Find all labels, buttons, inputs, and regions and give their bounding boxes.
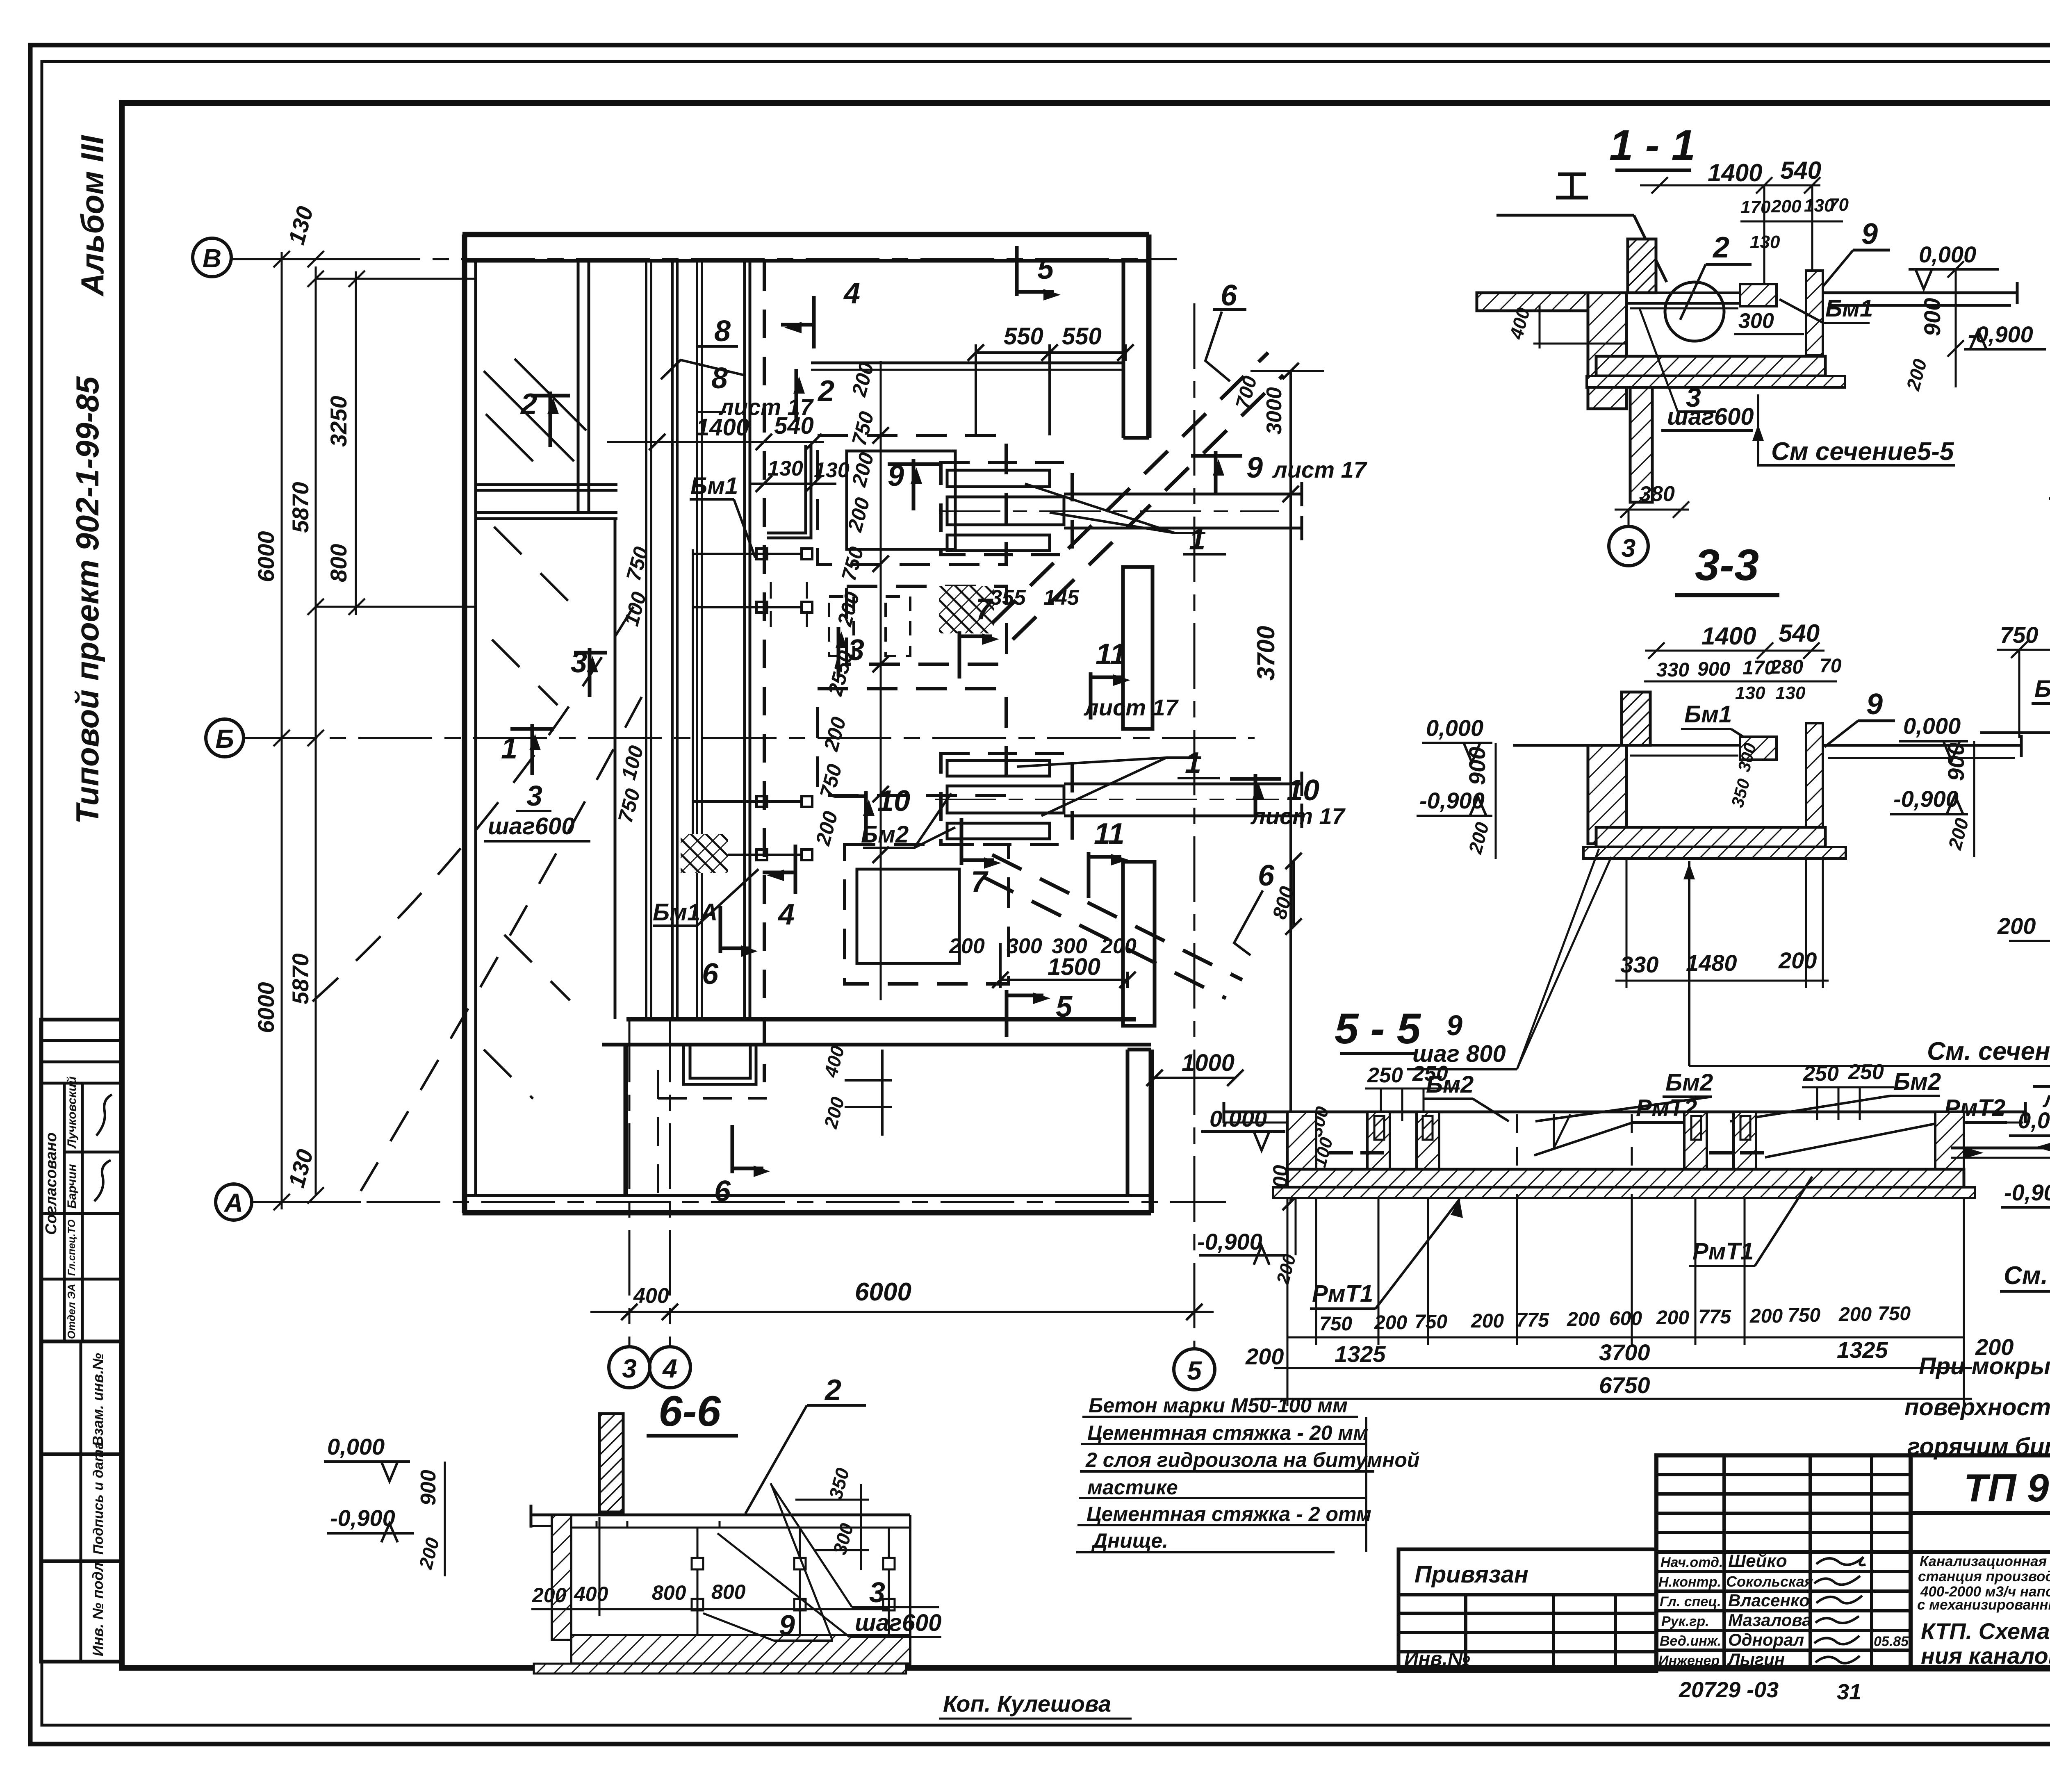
svg-text:11: 11	[1094, 817, 1125, 850]
small revision grid	[1656, 1455, 1911, 1552]
bottom slab	[1596, 827, 1825, 847]
svg-text:лист 17: лист 17	[1272, 457, 1368, 483]
svg-text:Гл. спец.: Гл. спец.	[1660, 1594, 1721, 1610]
svg-text:7: 7	[971, 865, 989, 898]
leader 1 upper	[1025, 484, 1205, 533]
anchor bolt squares	[756, 549, 767, 559]
grid axis B line	[232, 258, 1177, 260]
channel corridor wall pair B	[671, 261, 674, 1019]
flag 5 bottom	[1007, 990, 1050, 1037]
svg-text:6750: 6750	[1599, 1372, 1650, 1398]
svg-text:2: 2	[817, 375, 834, 408]
channel right wall	[1806, 723, 1823, 827]
см сечение 5-5	[1758, 424, 1955, 465]
svg-text:Привязан: Привязан	[1414, 1561, 1528, 1588]
svg-text:Инв.№: Инв.№	[1404, 1648, 1470, 1670]
right vertical dim 3700/3000/700	[1289, 371, 1292, 1202]
svg-text:шаг600: шаг600	[488, 813, 575, 840]
svg-text:3250: 3250	[326, 396, 351, 447]
dim 1000	[1155, 1077, 1235, 1079]
svg-text:Власенко: Власенко	[1728, 1591, 1810, 1610]
top slab lines with left pipe end	[531, 1514, 910, 1516]
callout leaders	[295, 310, 1263, 1191]
svg-text:мастике: мастике	[1087, 1476, 1178, 1499]
note paragraph при мокрых грунтах	[1904, 1353, 2050, 1460]
flag 6 sump	[720, 906, 758, 957]
svg-text:800: 800	[652, 1581, 686, 1604]
svg-text:550: 550	[1062, 323, 1102, 350]
sump niche	[683, 1045, 756, 1084]
right outlet pipes	[1964, 1111, 2025, 1113]
svg-text:200: 200	[1749, 1305, 1783, 1327]
svg-text:130: 130	[768, 457, 803, 480]
grid circle 4	[649, 1347, 690, 1388]
svg-text:5: 5	[1187, 1356, 1202, 1385]
flag 10 center	[834, 791, 875, 840]
svg-text:31: 31	[1837, 1680, 1861, 1704]
svg-text:130: 130	[1735, 683, 1765, 703]
crosshatch grate patch	[939, 586, 994, 633]
pump dashed outline lower	[941, 754, 1072, 845]
svg-text:1325: 1325	[1837, 1337, 1888, 1363]
svg-text:3: 3	[526, 780, 542, 812]
grid letters	[203, 244, 1202, 1385]
svg-text:1325: 1325	[1335, 1341, 1386, 1367]
leader 6 bottom-right	[1234, 890, 1263, 955]
leader 1 lower	[1017, 758, 1201, 767]
svg-text:Гл.спец.ТО: Гл.спец.ТО	[66, 1219, 77, 1276]
grid circle 3	[609, 1347, 650, 1388]
flag 4 top	[781, 296, 814, 348]
right wall lower segment	[1149, 1050, 1154, 1213]
right wall pilaster mid	[1123, 567, 1153, 729]
svg-text:Рук.гр.: Рук.гр.	[1661, 1614, 1709, 1629]
svg-text:130: 130	[1775, 683, 1806, 703]
svg-text:800: 800	[326, 544, 351, 582]
stamp column table bottom-left (in margin)	[41, 1020, 122, 1662]
svg-text:3700: 3700	[1599, 1339, 1650, 1365]
wall pier below	[1630, 387, 1652, 502]
svg-text:См сечение5-5: См сечение5-5	[1771, 437, 1954, 466]
bottom dim chains	[1255, 1194, 1972, 1406]
svg-text:6: 6	[714, 1175, 731, 1208]
svg-text:900: 900	[1919, 298, 1945, 336]
svg-text:900: 900	[417, 1470, 440, 1505]
dimension ticks on left chains	[273, 251, 365, 1210]
pump dashed outline upper	[941, 462, 1072, 555]
svg-text:1400: 1400	[1701, 622, 1756, 650]
svg-text:200: 200	[949, 934, 985, 958]
right edge	[909, 1515, 911, 1664]
lower room dashed arcs	[295, 607, 633, 1017]
svg-text:шаг600: шаг600	[1667, 403, 1754, 430]
svg-text:200: 200	[1245, 1343, 1284, 1369]
svg-text:См. сечение 5-5: См. сечение 5-5	[1927, 1037, 2050, 1066]
svg-text:См. сечение 5-5: См. сечение 5-5	[2004, 1261, 2050, 1290]
flag 2 corridor up-arrow	[779, 369, 814, 422]
svg-text:550: 550	[1004, 323, 1043, 350]
svg-text:КТП. Схема расположе-: КТП. Схема расположе-	[1921, 1618, 2050, 1644]
rail mark I	[1496, 174, 1667, 282]
svg-text:4: 4	[843, 277, 860, 310]
upper-left room right wall	[577, 261, 580, 512]
svg-text:280: 280	[1770, 656, 1803, 678]
svg-text:3700: 3700	[1252, 626, 1280, 681]
channel bottom slab	[1596, 356, 1825, 376]
channel 540 right wall upper	[767, 445, 806, 533]
bottom slab	[571, 1635, 910, 1664]
walls	[1287, 1112, 1316, 1186]
svg-text:1: 1	[1185, 747, 1201, 779]
svg-text:750: 750	[1414, 1311, 1447, 1333]
svg-text:200: 200	[1771, 196, 1802, 216]
svg-text:1 - 1: 1 - 1	[1609, 121, 1695, 169]
svg-text:4: 4	[662, 1354, 677, 1383]
svg-text:1000: 1000	[1182, 1050, 1235, 1076]
svg-text:3: 3	[571, 646, 587, 679]
svg-text:Н.контр.: Н.контр.	[1658, 1574, 1721, 1590]
svg-text:3: 3	[869, 1576, 885, 1608]
svg-text:Бм2: Бм2	[1665, 1069, 1713, 1096]
dashed guide small	[771, 582, 807, 640]
svg-text:0.000: 0.000	[1209, 1106, 1267, 1132]
signatures squiggles	[1814, 1557, 1865, 1663]
svg-text:3: 3	[622, 1354, 637, 1383]
second mid wall	[476, 511, 617, 514]
lower pump unit bars	[947, 761, 1050, 776]
plan texts	[614, 323, 1298, 1308]
svg-text:6000: 6000	[855, 1278, 911, 1306]
upper pump unit bars	[947, 470, 1050, 487]
base plate wavy	[1273, 1187, 1975, 1198]
flag 7 lower	[961, 818, 1001, 869]
svg-text:380: 380	[1639, 482, 1675, 506]
svg-text:-0,900: -0,900	[1197, 1229, 1262, 1255]
svg-text:0,000: 0,000	[1426, 715, 1483, 741]
svg-text:Бм2: Бм2	[1893, 1068, 1941, 1095]
svg-text:5870: 5870	[287, 953, 313, 1004]
svg-text:В: В	[203, 244, 221, 273]
svg-text:6: 6	[1221, 279, 1237, 312]
svg-text:3-3: 3-3	[1695, 540, 1759, 590]
dim 800 right	[1292, 861, 1295, 927]
wall below floor	[1588, 293, 1626, 409]
grid axis А line	[252, 1201, 1226, 1203]
svg-text:70: 70	[1820, 655, 1842, 677]
channel rails	[1626, 744, 1763, 747]
left pipes	[1951, 1147, 2050, 1150]
svg-text:70: 70	[1829, 195, 1849, 215]
svg-text:Типовой проект 902-1-99-85: Типовой проект 902-1-99-85	[69, 376, 105, 824]
svg-text:Инженер: Инженер	[1658, 1653, 1720, 1669]
flag 9 mid	[888, 459, 939, 510]
svg-text:ТП 902-1-99-85 - КЖ: ТП 902-1-99-85 - КЖ	[1964, 1466, 2050, 1510]
svg-text:200: 200	[1656, 1307, 1689, 1329]
right wall upper segment	[1146, 235, 1152, 438]
svg-text:1400: 1400	[1708, 159, 1762, 187]
svg-text:600: 600	[1609, 1308, 1642, 1330]
svg-text:540: 540	[1780, 157, 1821, 184]
grid axis Б line	[244, 737, 1255, 739]
lower pump axis	[935, 799, 1279, 800]
machinery inner solid rect upper	[847, 451, 955, 549]
svg-text:лист 17: лист 17	[718, 394, 814, 420]
upper room diagonal marks	[484, 371, 574, 461]
top dim 550 550	[976, 351, 1125, 354]
svg-text:ния каналов (начало): ния каналов (начало)	[1921, 1643, 2050, 1669]
grid circle B	[193, 238, 231, 277]
svg-text:5870: 5870	[287, 482, 313, 533]
svg-text:2 слоя гидроизола на битумной: 2 слоя гидроизола на битумной	[1085, 1448, 1419, 1471]
svg-text:300: 300	[1007, 934, 1042, 958]
svg-text:Сокольская: Сокольская	[1726, 1573, 1813, 1590]
svg-text:горячим битумом за 2 раза.: горячим битумом за 2 раза.	[1907, 1433, 2050, 1460]
svg-text:Подпись и дата: Подпись и дата	[91, 1441, 106, 1555]
svg-text:5: 5	[1056, 990, 1073, 1023]
svg-text:250: 250	[1412, 1062, 1448, 1086]
svg-text:Вед.инж.: Вед.инж.	[1660, 1633, 1721, 1649]
svg-text:200: 200	[1100, 934, 1137, 958]
sump chamber outline	[624, 1045, 628, 1195]
svg-text:2: 2	[824, 1374, 841, 1407]
svg-text:10: 10	[877, 785, 910, 817]
outer of name rows block	[1656, 1552, 1911, 1669]
stamp rotated captions	[43, 1076, 112, 1656]
grid axis 4 vertical	[669, 1017, 671, 1347]
svg-text:Коп. Кулешова: Коп. Кулешова	[943, 1691, 1111, 1717]
leader 6 top-right	[1205, 312, 1230, 381]
top wall	[462, 232, 1149, 237]
svg-text:-0,900: -0,900	[2004, 1179, 2050, 1205]
svg-text:7: 7	[976, 593, 993, 626]
base plate	[1583, 847, 1846, 858]
Бм2 inserts dense	[1374, 1116, 1384, 1140]
notes list	[1085, 1394, 1419, 1552]
flag 4 lower	[763, 845, 795, 894]
svg-text:Бм1А: Бм1А	[2034, 676, 2050, 702]
Бм1 insert	[1740, 284, 1777, 306]
plan section flags and callouts	[510, 246, 1281, 1177]
см сечение 5-5 leader	[1688, 861, 1690, 1066]
svg-text:Лучковский: Лучковский	[65, 1076, 79, 1149]
svg-text:2: 2	[1712, 231, 1729, 264]
svg-text:6000: 6000	[253, 982, 279, 1033]
svg-text:750: 750	[2000, 622, 2038, 648]
flag 3 center	[836, 627, 847, 676]
svg-text:3: 3	[848, 634, 864, 667]
svg-text:5: 5	[1037, 253, 1054, 285]
svg-text:9: 9	[888, 460, 904, 492]
upper pump axis	[939, 510, 1279, 512]
wall stub dense hatch	[599, 1414, 623, 1512]
twin channel body	[1980, 731, 2050, 734]
small dim lines near bolts	[693, 553, 802, 555]
svg-text:200: 200	[1471, 1310, 1504, 1332]
flag 6 left-bottom 1	[732, 1125, 770, 1177]
channel dashed edge	[763, 262, 766, 1082]
svg-text:400: 400	[574, 1583, 608, 1605]
svg-text:Лыгин: Лыгин	[1727, 1650, 1785, 1669]
svg-text:5 - 5: 5 - 5	[1335, 1005, 1421, 1053]
svg-text:200: 200	[1997, 913, 2036, 939]
svg-text:9: 9	[1246, 451, 1263, 484]
svg-text:200: 200	[1567, 1309, 1600, 1330]
grid axis 3 vertical	[629, 1017, 631, 1348]
svg-text:-0,900: -0,900	[1419, 788, 1485, 813]
svg-text:200: 200	[1778, 947, 1817, 973]
svg-text:800: 800	[711, 1580, 746, 1603]
svg-text:Альбом III: Альбом III	[74, 135, 110, 297]
svg-text:6-6: 6-6	[658, 1387, 721, 1435]
bottom grid dim line 400 6000	[590, 1311, 1214, 1313]
cable duct dashed diagonals upper	[992, 353, 1268, 623]
svg-text:Бм1: Бм1	[1825, 295, 1873, 322]
svg-text:Отдел ЭА: Отдел ЭА	[65, 1284, 77, 1339]
svg-text:3: 3	[1622, 534, 1635, 562]
grid axis 5 vertical	[1194, 303, 1196, 1349]
svg-text:400: 400	[633, 1284, 669, 1308]
svg-text:9: 9	[779, 1609, 795, 1641]
flag 10 right	[1230, 774, 1281, 816]
floor slab left	[1477, 293, 1588, 311]
parapet dense	[1628, 239, 1656, 293]
channel corridor wall pair A	[645, 261, 647, 1019]
svg-text:0,000: 0,000	[327, 1434, 385, 1460]
svg-text:Согласовано: Согласовано	[43, 1132, 60, 1235]
crane beam lines	[811, 362, 1123, 364]
svg-text:Барчин: Барчин	[65, 1164, 79, 1209]
svg-text:Инв. № подл.: Инв. № подл.	[89, 1558, 106, 1656]
title block	[1399, 1455, 2050, 1671]
svg-text:130: 130	[1750, 232, 1780, 252]
inner mid dashed verticals	[1516, 1114, 1518, 1184]
dim 400 200 small sump	[881, 1050, 884, 1136]
machine hall internal bottom wall	[626, 1017, 1136, 1022]
cable duct dashed diagonals lower	[992, 855, 1242, 980]
svg-text:1: 1	[501, 732, 517, 765]
grid circle А	[216, 1184, 252, 1220]
anchor bolts two rows	[597, 1521, 895, 1634]
svg-text:250: 250	[1803, 1062, 1839, 1086]
project name block text	[1917, 1553, 2050, 1613]
crosshatch grate lower	[681, 834, 728, 873]
svg-text:Шейко: Шейко	[1728, 1551, 1787, 1571]
flag 2 upper room	[531, 392, 570, 447]
shared level 0.000	[1199, 1132, 1296, 1265]
bottom wall	[462, 1210, 1151, 1216]
svg-text:750: 750	[1319, 1313, 1352, 1335]
plan machinery / pumps / annotations	[590, 344, 1324, 1320]
detail circle	[1665, 282, 1724, 341]
svg-text:Канализационная насосная: Канализационная насосная	[1920, 1553, 2050, 1569]
svg-text:775: 775	[1516, 1309, 1549, 1331]
channel right wall	[1806, 271, 1823, 355]
svg-text:900: 900	[1697, 658, 1730, 680]
svg-text:Бм1: Бм1	[690, 473, 738, 499]
leader Бм1А	[653, 924, 697, 927]
Бм1 insert	[1740, 737, 1777, 760]
svg-text:лист 17: лист 17	[1083, 694, 1179, 720]
svg-text:Днище.: Днище.	[1091, 1529, 1168, 1552]
svg-text:шаг600: шаг600	[855, 1610, 942, 1636]
channel rails	[1626, 291, 1763, 294]
svg-text:с механизированными решетками: с механизированными решетками	[1917, 1597, 2050, 1613]
svg-text:8: 8	[714, 315, 731, 348]
left wall	[462, 235, 467, 1213]
svg-text:330: 330	[1656, 659, 1689, 681]
svg-text:станция производительностью: станция производительностью	[1918, 1569, 2050, 1585]
bottom slab	[1287, 1169, 1964, 1187]
svg-text:250: 250	[1848, 1060, 1884, 1084]
svg-text:лист 17: лист 17	[1250, 803, 1346, 829]
right floor lines	[1823, 291, 2017, 294]
upper-left room floor wall	[476, 483, 617, 486]
lower pump suction pipes	[1064, 783, 1302, 786]
svg-text:10: 10	[1287, 774, 1319, 807]
machinery dashed box middle	[847, 586, 1007, 664]
grate dashed small boxes	[829, 597, 854, 656]
flag 7 upper	[959, 631, 999, 679]
leader 8	[697, 345, 738, 348]
svg-text:Бетон марки М50-100 мм: Бетон марки М50-100 мм	[1089, 1394, 1348, 1417]
channel corridor wall pair B2	[696, 261, 698, 1019]
svg-text:1: 1	[1189, 523, 1205, 556]
svg-text:05.85: 05.85	[1874, 1634, 1909, 1649]
svg-text:200: 200	[1838, 1304, 1872, 1325]
floor top line	[1513, 744, 1628, 747]
svg-text:Цементная стяжка - 2 отм: Цементная стяжка - 2 отм	[1086, 1503, 1371, 1526]
leader Бм2	[863, 793, 951, 848]
svg-text:750: 750	[1878, 1303, 1911, 1325]
svg-text:750: 750	[1788, 1305, 1820, 1326]
machinery lower solid rect	[857, 869, 959, 963]
machinery dashed box lower	[818, 689, 1006, 795]
grid circle 5	[1174, 1349, 1215, 1390]
svg-text:Однорал: Однорал	[1728, 1630, 1804, 1649]
svg-text:0,000: 0,000	[1903, 713, 1961, 739]
svg-text:1480: 1480	[1686, 950, 1737, 976]
svg-text:200: 200	[1975, 1334, 2014, 1360]
svg-text:900: 900	[1464, 747, 1490, 785]
right wall pilaster lower	[1123, 862, 1155, 1026]
machinery dashed box upper	[818, 435, 1006, 565]
svg-text:Нач.отд.: Нач.отд.	[1660, 1555, 1723, 1570]
wall below	[1588, 745, 1626, 844]
flag 9 right	[1191, 451, 1242, 494]
parapet dense	[1622, 692, 1650, 745]
base plate	[534, 1664, 906, 1674]
svg-text:9: 9	[1866, 688, 1883, 721]
svg-text:РмТ1: РмТ1	[1312, 1280, 1373, 1307]
left wall	[552, 1515, 571, 1640]
right floor lines	[1823, 744, 2021, 747]
plan left dimension chains	[232, 252, 476, 1209]
dim line 130 130	[750, 483, 836, 485]
dim line 1400-540	[607, 441, 824, 443]
svg-text:9: 9	[1446, 1009, 1462, 1041]
svg-text:4: 4	[777, 898, 795, 931]
long channel: top line	[1287, 1111, 1964, 1113]
svg-text:300: 300	[1738, 309, 1774, 333]
svg-text:6: 6	[702, 958, 719, 990]
svg-text:775: 775	[1698, 1306, 1731, 1328]
grid circle Б	[206, 719, 244, 757]
upper pump suction pipes	[1064, 493, 1302, 496]
svg-text:130: 130	[814, 458, 850, 482]
svg-text:0,000: 0,000	[1919, 241, 1976, 267]
left extension table Привязан	[1399, 1549, 1656, 1671]
dims 200 300 300 200 1500	[1000, 979, 1127, 981]
